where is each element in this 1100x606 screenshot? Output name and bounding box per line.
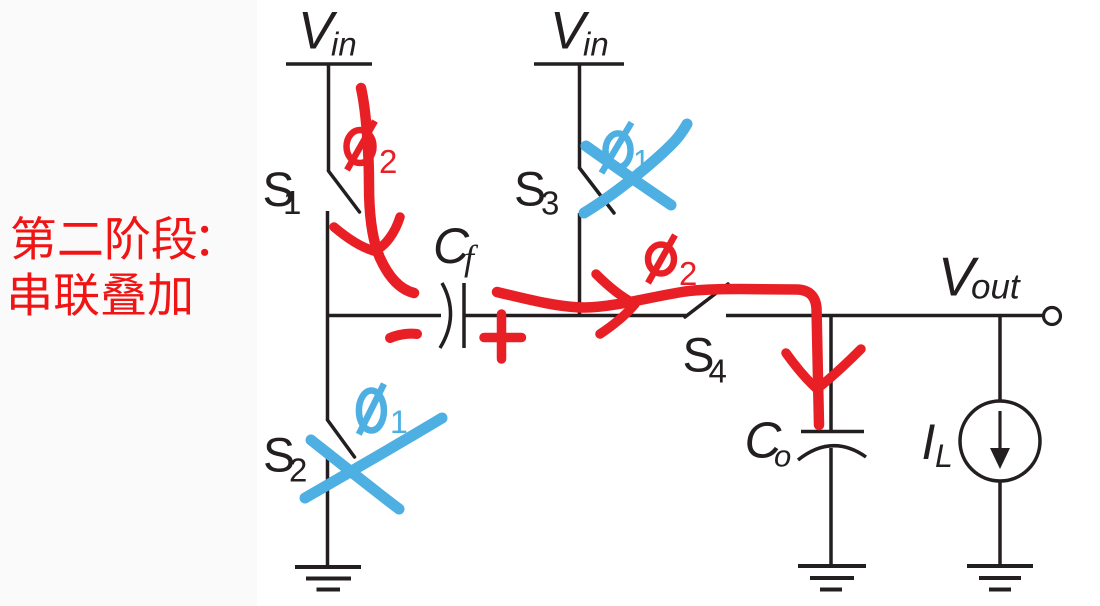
current source arrow: [998, 411, 1001, 452]
wire S4 to Vout terminal: [726, 314, 1043, 318]
blue phase label phi1 at S3: [602, 123, 632, 174]
ground under IL: [967, 566, 1033, 590]
wire Vin2 to S3: [578, 64, 582, 168]
red current arrow through S1: [334, 88, 861, 425]
blue X cross-out at S3: [584, 124, 687, 213]
wire Cf to S4: [464, 314, 686, 318]
Vout open terminal circle: [1044, 308, 1061, 325]
wire S1 to node A to S2: [326, 211, 330, 420]
annotation text line 1: 第二阶段：: [12, 216, 208, 260]
svg-text:2: 2: [679, 255, 697, 292]
Vin supply bar 1: [286, 62, 372, 66]
wire Co to ground: [829, 448, 833, 566]
red phase label phi2 at S4: [648, 235, 675, 283]
capacitor Co curved plate: [798, 446, 866, 460]
switch S2 blade: [328, 420, 355, 457]
switch S4 blade: [685, 284, 728, 317]
svg-text:2: 2: [289, 452, 307, 489]
capacitor Cf straight plate: [462, 283, 466, 348]
svg-text:4: 4: [709, 353, 727, 390]
svg-text:1: 1: [283, 184, 301, 221]
capacitor Cf curved plate: [440, 283, 451, 348]
switch S1 blade: [329, 171, 360, 212]
wire node C to Co top plate: [829, 315, 833, 431]
Vin supply bar 2: [534, 62, 624, 66]
svg-text:I: I: [922, 414, 936, 470]
current source IL circle: [960, 401, 1040, 481]
svg-text:L: L: [935, 438, 953, 474]
red minus sign at Cf left: [390, 334, 417, 338]
red plus sign at Cf right: [484, 314, 522, 359]
wire Vout node to current source: [998, 315, 1002, 401]
ground under S2: [295, 567, 361, 590]
current source arrowhead: [990, 448, 1010, 469]
svg-text:in: in: [331, 26, 357, 63]
wire node A to Cf left plate: [326, 314, 441, 318]
wire S2 to ground: [326, 457, 330, 566]
svg-text:out: out: [971, 268, 1021, 307]
svg-text:2: 2: [379, 143, 397, 180]
capacitor Co top plate: [801, 430, 864, 434]
wire S3 to node B: [578, 213, 582, 315]
blue phase label phi1 at S2: [359, 384, 384, 435]
wire current source to ground: [998, 481, 1002, 566]
switch S3 blade: [580, 168, 615, 213]
wire Vin1 to S1: [327, 64, 331, 171]
annotation text line 2: 串联叠加: [11, 272, 190, 316]
red current arrow from Cf through S4 down to Co: [497, 289, 819, 425]
svg-text:3: 3: [541, 185, 559, 222]
svg-text:in: in: [583, 26, 609, 63]
svg-text:o: o: [774, 439, 791, 474]
blue X cross-out at S2: [305, 418, 442, 509]
ground under Co: [798, 566, 866, 590]
red phase label phi2 at S1: [347, 121, 376, 170]
